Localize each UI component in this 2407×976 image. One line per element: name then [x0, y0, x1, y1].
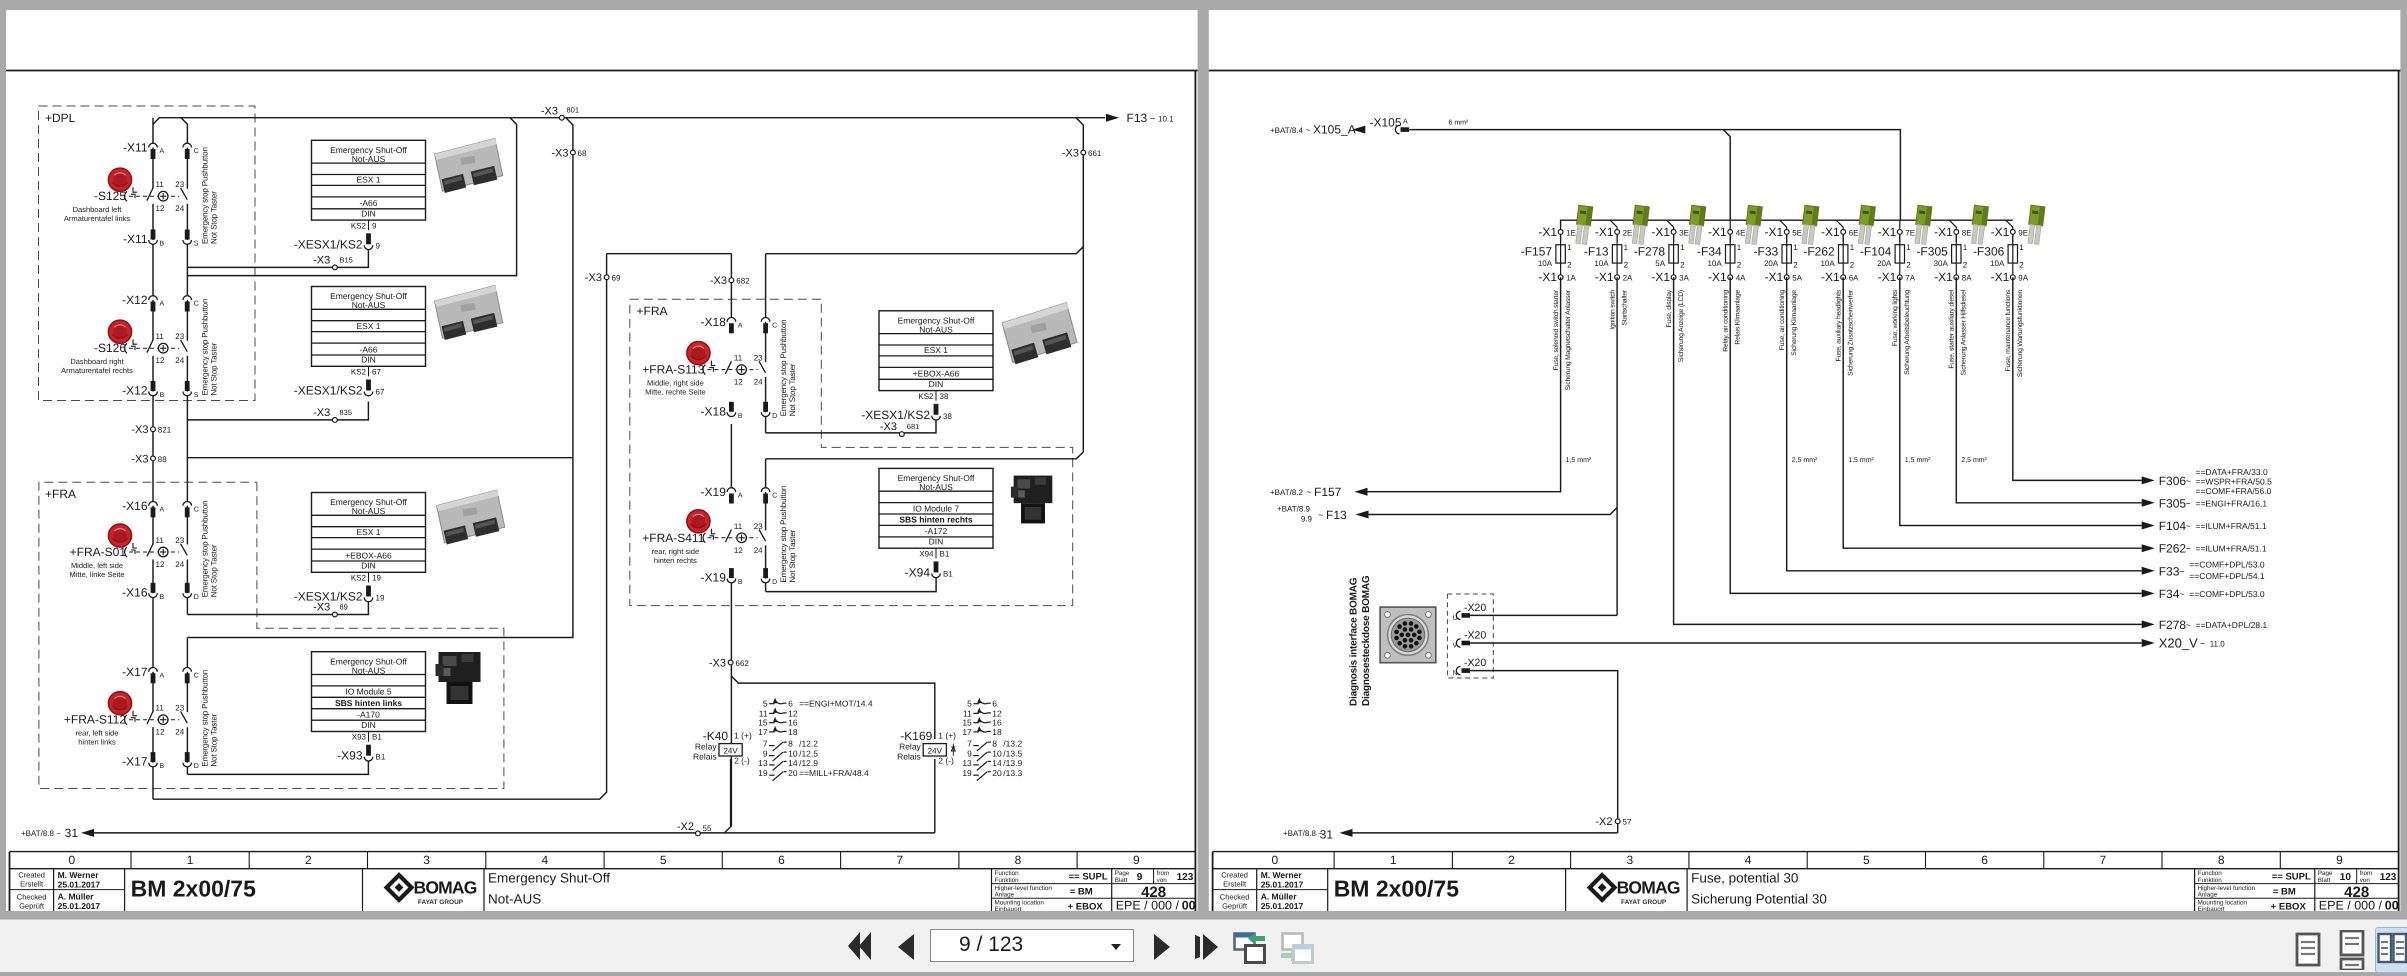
svg-text:7: 7 [2100, 853, 2107, 867]
svg-text:B: B [160, 594, 165, 601]
svg-text:Emergency stop Pushbutton: Emergency stop Pushbutton [201, 299, 210, 396]
connector -X16 pin A [149, 501, 158, 505]
svg-text:==COMF+DPL/54.1: ==COMF+DPL/54.1 [2189, 571, 2265, 581]
svg-text:Funktion: Funktion [2198, 877, 2223, 884]
plunger circle symbol [158, 191, 168, 201]
svg-text:B: B [160, 392, 165, 399]
svg-text:1: 1 [1390, 853, 1397, 867]
svg-text:7: 7 [763, 739, 768, 749]
svg-text:2: 2 [1567, 260, 1572, 269]
fuse element -F104 20A [1899, 234, 1901, 246]
svg-text:1: 1 [1567, 243, 1572, 252]
svg-text:von: von [1157, 877, 1168, 884]
svg-text:-X3: -X3 [313, 255, 330, 267]
wire main bus vertical [152, 118, 154, 800]
svg-text:Geprüft: Geprüft [1222, 902, 1248, 911]
svg-text:6E: 6E [1849, 228, 1859, 237]
location box +DPL [39, 106, 256, 401]
terminal -X1 2E [1616, 227, 1618, 242]
svg-text:Relay: Relay [695, 742, 717, 752]
svg-text:Emergency stop Pushbutton: Emergency stop Pushbutton [201, 147, 210, 244]
actuator dashed link [129, 551, 179, 553]
svg-text:1,5 mm²: 1,5 mm² [1848, 457, 1874, 464]
svg-text:123: 123 [1177, 872, 1194, 883]
wire F262 output [1843, 277, 2142, 548]
svg-text:==DATA+FRA/33.0: ==DATA+FRA/33.0 [2196, 467, 2268, 477]
svg-text:==ENGI+MOT/14.4: ==ENGI+MOT/14.4 [799, 699, 873, 709]
svg-text:-X1: -X1 [1708, 270, 1727, 284]
column-number strip [10, 851, 1196, 853]
arrow F262 [2142, 544, 2155, 552]
svg-text:12: 12 [734, 378, 743, 387]
svg-text:7: 7 [967, 739, 972, 749]
svg-text:-X1: -X1 [1934, 270, 1953, 284]
svg-text:1: 1 [2019, 243, 2024, 252]
arrow F305 [2142, 499, 2155, 507]
contact 23-24 [185, 545, 189, 560]
svg-text:Sicherung Klimaanlage: Sicherung Klimaanlage [1791, 290, 1798, 356]
svg-text:-F157: -F157 [1521, 245, 1553, 259]
svg-text:1: 1 [1963, 243, 1968, 252]
svg-text:-X11: -X11 [123, 232, 148, 246]
svg-text:-X16: -X16 [122, 585, 148, 599]
svg-text:Not Stop Taster: Not Stop Taster [788, 529, 797, 582]
relay -K40 coil [693, 729, 752, 766]
fuse supply bus [1561, 220, 2013, 227]
svg-text:24: 24 [175, 728, 184, 737]
fuse -F34 [1697, 225, 1746, 352]
fuse -F306 [1973, 225, 2029, 377]
svg-text:~: ~ [1306, 125, 1311, 135]
plunger circle symbol [158, 343, 168, 353]
BOMAG logo [1590, 875, 1615, 900]
svg-text:24: 24 [175, 560, 184, 569]
svg-text:B: B [738, 579, 743, 586]
svg-text:835: 835 [340, 408, 353, 417]
wire F34 output [1730, 277, 2142, 593]
svg-text:7: 7 [896, 853, 903, 867]
svg-text:-X1: -X1 [1934, 225, 1953, 239]
svg-text:-X3: -X3 [131, 453, 148, 465]
svg-text:1 (+): 1 (+) [938, 731, 956, 741]
svg-text:==COMF+FRA/56.0: ==COMF+FRA/56.0 [2196, 486, 2272, 496]
svg-text:6: 6 [992, 699, 997, 709]
svg-text:IO Module 5: IO Module 5 [345, 687, 392, 697]
svg-text:BM 2x00/75: BM 2x00/75 [1334, 876, 1460, 902]
pin C [183, 667, 192, 671]
svg-text:== SUPL: == SUPL [2272, 872, 2311, 883]
svg-text:0: 0 [68, 853, 75, 867]
svg-text:DIN: DIN [361, 561, 376, 571]
svg-text:-X12: -X12 [122, 384, 148, 398]
left page sheet [6, 10, 1198, 912]
first page button [847, 931, 872, 961]
svg-text:2: 2 [2019, 260, 2024, 269]
svg-text:10A: 10A [1707, 259, 1722, 268]
svg-text:8: 8 [1015, 853, 1022, 867]
svg-text:A: A [160, 301, 165, 308]
svg-text:6: 6 [1981, 853, 1988, 867]
svg-text:Not Stop Taster: Not Stop Taster [210, 713, 219, 766]
svg-text:M. Werner: M. Werner [1261, 870, 1303, 880]
svg-text:-A66: -A66 [360, 198, 378, 208]
svg-text:Fuse, auxiliary headlights: Fuse, auxiliary headlights [1836, 289, 1843, 361]
fuse element -F34 10A [1729, 234, 1731, 246]
wire X94 link [766, 577, 937, 592]
fuse element -F305 30A [1955, 234, 1957, 246]
svg-text:ESX 1: ESX 1 [924, 345, 948, 355]
svg-text:+FRA: +FRA [45, 487, 76, 501]
svg-text:A: A [738, 322, 743, 329]
svg-text:662: 662 [736, 659, 750, 668]
pin C [761, 317, 770, 321]
fuse -F157 [1521, 225, 1577, 391]
svg-text:A: A [160, 506, 165, 513]
svg-text:20: 20 [788, 768, 798, 778]
svg-text:5: 5 [660, 853, 667, 867]
svg-text:-X93: -X93 [337, 749, 363, 763]
svg-text:Ignition switch: Ignition switch [1610, 290, 1617, 330]
wire K169 coil tail [934, 759, 936, 833]
svg-text:-X1: -X1 [1595, 270, 1614, 284]
svg-text:-F33: -F33 [1754, 245, 1779, 259]
svg-text:von: von [2360, 877, 2371, 884]
svg-text:D: D [772, 413, 777, 420]
svg-text:==WSPR+FRA/50.5: ==WSPR+FRA/50.5 [2196, 476, 2273, 486]
wire X18 C feed from X3-661 riser [766, 247, 1084, 254]
arrow +BAT/8.8 31 [81, 829, 94, 837]
svg-text:57: 57 [1623, 818, 1632, 827]
bus jog [2006, 220, 2013, 227]
svg-text:30A: 30A [1934, 259, 1949, 268]
svg-text:~: ~ [2186, 620, 2191, 630]
svg-text:Not-AUS: Not-AUS [919, 324, 953, 334]
ESX connector image [436, 490, 506, 545]
svg-text:2A: 2A [1623, 274, 1633, 283]
actuator symbol [133, 339, 137, 344]
svg-text:Relay, air conditioning: Relay, air conditioning [1723, 290, 1730, 352]
svg-text:25.01.2017: 25.01.2017 [1261, 901, 1304, 911]
fuse -F33 [1754, 225, 1803, 356]
svg-text:1: 1 [1793, 243, 1798, 252]
wire F305 output [1956, 277, 2141, 503]
location box +FRA middle [630, 299, 1073, 605]
svg-text:Fuse, solenoid switch starter: Fuse, solenoid switch starter [1553, 289, 1560, 370]
svg-text:-X17: -X17 [122, 755, 148, 769]
svg-text:2: 2 [1624, 260, 1629, 269]
relay -K169 coil [897, 729, 956, 766]
pin D [185, 752, 190, 762]
svg-text:-F278: -F278 [1634, 245, 1666, 259]
svg-text:2: 2 [1737, 260, 1742, 269]
previous view button [1231, 927, 1267, 967]
svg-text:Fuse, starter auxiliary diesel: Fuse, starter auxiliary diesel [1949, 289, 1956, 368]
bus jog [1836, 220, 1843, 227]
svg-text:+FRA: +FRA [637, 304, 668, 318]
svg-text:Armaturentafel links: Armaturentafel links [64, 214, 131, 223]
svg-text:682: 682 [736, 277, 750, 286]
svg-text:2: 2 [1508, 853, 1515, 867]
svg-text:F34: F34 [2159, 587, 2180, 601]
svg-text:rear, left side: rear, left side [76, 729, 119, 738]
blade fuse image [1970, 205, 1989, 244]
svg-text:19: 19 [962, 768, 972, 778]
bus jog [1780, 220, 1787, 227]
svg-text:Middle, left side: Middle, left side [71, 561, 123, 570]
svg-text:/13.9: /13.9 [1003, 758, 1022, 768]
svg-text:1,5 mm²: 1,5 mm² [1905, 457, 1931, 464]
svg-text:F278: F278 [2159, 618, 2187, 632]
svg-text:Not-AUS: Not-AUS [352, 154, 386, 164]
svg-text:D: D [194, 594, 199, 601]
svg-text:rear, right side: rear, right side [652, 547, 700, 556]
svg-text:5: 5 [1863, 853, 1870, 867]
wire F33 output [1787, 277, 2142, 571]
plunger circle symbol [158, 547, 168, 557]
svg-text:Relais: Relais [693, 752, 717, 762]
svg-text:C: C [194, 506, 199, 513]
fuse -F104 [1860, 225, 1916, 375]
svg-text:Anlage: Anlage [2198, 892, 2218, 899]
svg-text:-X20: -X20 [1464, 657, 1486, 669]
svg-text:10: 10 [2340, 872, 2352, 883]
svg-text:F33: F33 [2159, 564, 2180, 578]
svg-text:Diagnosis interface BOMAG: Diagnosis interface BOMAG [1349, 577, 1360, 706]
wire DPL C-chain vertical [181, 118, 187, 276]
svg-text:ESX 1: ESX 1 [356, 175, 380, 185]
bus jog [1729, 220, 1731, 227]
svg-text:Dashboard left: Dashboard left [73, 205, 123, 214]
svg-text:Created: Created [1221, 871, 1248, 880]
next page button [1152, 933, 1172, 961]
svg-text:-X1: -X1 [1708, 225, 1727, 239]
svg-text:8: 8 [2218, 853, 2225, 867]
svg-text:+BAT/8.8 ~: +BAT/8.8 ~ [21, 829, 61, 838]
ESX module table A66-4 [861, 311, 993, 422]
previous page button [896, 933, 916, 961]
svg-text:==ILUM+FRA/51.1: ==ILUM+FRA/51.1 [2196, 544, 2267, 554]
connector -X16 pin B [151, 583, 156, 593]
actuator dashed link [129, 195, 179, 197]
wire X16/X17 C-chain [186, 505, 188, 615]
plunger circle symbol [737, 365, 747, 375]
mushroom head [687, 510, 710, 533]
svg-text:23: 23 [754, 354, 763, 363]
svg-text:-X20: -X20 [1464, 630, 1486, 642]
svg-text:55: 55 [703, 824, 712, 833]
svg-text:2E: 2E [1623, 228, 1633, 237]
svg-text:24V: 24V [723, 746, 738, 755]
next view button (disabled) [1279, 927, 1315, 967]
drawing frame outer border [6, 70, 1198, 72]
X20 plug dashed box [1447, 594, 1493, 678]
svg-text:A. Müller: A. Müller [1261, 892, 1298, 902]
svg-text:= BM: = BM [1070, 887, 1093, 898]
svg-text:+DPL: +DPL [45, 111, 76, 125]
svg-text:Blatt: Blatt [1115, 877, 1128, 884]
svg-text:+EBOX-A66: +EBOX-A66 [913, 369, 960, 379]
svg-text:~: ~ [2186, 476, 2191, 486]
svg-text:==ENGI+FRA/16.1: ==ENGI+FRA/16.1 [2196, 498, 2268, 508]
svg-text:25.01.2017: 25.01.2017 [1261, 880, 1304, 890]
svg-text:Emergency stop Pushbutton: Emergency stop Pushbutton [201, 501, 210, 598]
wire X3-661 bottom corner [766, 452, 1084, 459]
svg-text:-X3: -X3 [541, 106, 558, 118]
svg-text:8: 8 [992, 739, 997, 749]
svg-text:Emergency stop Pushbutton: Emergency stop Pushbutton [201, 670, 210, 767]
svg-text:ESX 1: ESX 1 [356, 321, 380, 331]
svg-text:/13.2: /13.2 [1003, 739, 1022, 749]
svg-text:X94: X94 [919, 549, 934, 558]
IO module table 4 [879, 468, 993, 579]
svg-text:KS2: KS2 [351, 574, 367, 583]
actuator dashed link [129, 347, 179, 349]
wire X18 to X19 segment [730, 424, 732, 489]
svg-text:A: A [1403, 119, 1408, 126]
svg-text:24: 24 [175, 356, 184, 365]
svg-text:/12.9: /12.9 [799, 758, 818, 768]
svg-text:-S126: -S126 [94, 341, 126, 355]
pin C [183, 296, 192, 300]
wire F13 arrow jog [1368, 508, 1617, 515]
svg-text:3A: 3A [1679, 274, 1689, 283]
svg-text:Sicherung Anlasser Hilfsdiesel: Sicherung Anlasser Hilfsdiesel [1961, 289, 1968, 375]
svg-text:2: 2 [305, 853, 312, 867]
svg-text:4E: 4E [1736, 228, 1746, 237]
svg-text:Checked: Checked [1220, 893, 1250, 902]
svg-text:-X19: -X19 [701, 571, 727, 585]
svg-text:X20_V: X20_V [2159, 636, 2198, 651]
svg-text:-F262: -F262 [1803, 245, 1835, 259]
svg-text:-X3: -X3 [709, 658, 726, 670]
contact 11-12 [151, 712, 155, 727]
svg-text:38: 38 [940, 392, 949, 401]
plunger circle symbol [737, 533, 747, 543]
svg-text:3: 3 [1626, 853, 1633, 867]
svg-text:Not-AUS: Not-AUS [352, 506, 386, 516]
svg-text:D: D [772, 579, 777, 586]
svg-text:~: ~ [2200, 639, 2205, 649]
svg-text:24V: 24V [928, 746, 943, 755]
svg-text:123: 123 [2380, 872, 2397, 883]
terminal -X1 4E [1729, 227, 1731, 242]
svg-text:23: 23 [175, 704, 184, 713]
svg-text:24: 24 [754, 546, 763, 555]
diagnosis connector image [1380, 607, 1436, 663]
svg-text:~: ~ [2186, 521, 2191, 531]
svg-text:681: 681 [907, 422, 920, 431]
blade fuse image [1631, 205, 1650, 244]
svg-text:1: 1 [1680, 243, 1685, 252]
svg-text:Erstellt: Erstellt [20, 880, 44, 889]
svg-text:10A: 10A [1538, 259, 1553, 268]
svg-text:F157: F157 [1314, 485, 1342, 499]
svg-text:18: 18 [788, 727, 798, 737]
svg-text:-X18: -X18 [701, 315, 727, 329]
actuator symbol [133, 711, 137, 716]
svg-text:-X19: -X19 [701, 485, 727, 499]
svg-text:-A170: -A170 [357, 709, 380, 719]
svg-text:5: 5 [763, 699, 768, 709]
svg-text:B15: B15 [340, 256, 353, 265]
connector -X11 pin A [149, 143, 158, 147]
location box +FRA lower-left [39, 482, 504, 788]
actuator dashed link [707, 537, 757, 539]
svg-text:5E: 5E [1792, 228, 1802, 237]
bus jog [1610, 220, 1617, 227]
svg-text:23: 23 [175, 536, 184, 545]
svg-text:2 (-): 2 (-) [734, 756, 750, 766]
actuator dashed link [129, 719, 179, 721]
svg-text:25.01.2017: 25.01.2017 [58, 901, 101, 911]
wire top bus to F13 [153, 118, 1105, 125]
svg-text:B: B [160, 241, 165, 248]
svg-text:-X1: -X1 [1651, 225, 1670, 239]
blade fuse image [1857, 205, 1876, 244]
blade fuse image [1687, 205, 1706, 244]
ESX connector image [1001, 302, 1079, 365]
contact 23-24 [764, 530, 768, 545]
actuator symbol [133, 187, 137, 192]
svg-text:4: 4 [542, 853, 549, 867]
ESX connector image [434, 138, 504, 193]
svg-text:Checked: Checked [17, 893, 47, 902]
svg-text:Dashboard right: Dashboard right [70, 357, 124, 366]
svg-text:Not Stop Taster: Not Stop Taster [210, 191, 219, 244]
IO module table 3 [312, 652, 426, 763]
single page view icon [2291, 931, 2325, 969]
svg-text:3: 3 [423, 853, 430, 867]
column-number strip [1213, 851, 2399, 853]
svg-text:Startschalter: Startschalter [1621, 289, 1628, 325]
svg-text:= BM: = BM [2273, 887, 2296, 898]
wire B15 link [187, 249, 368, 267]
blade fuse image [2026, 205, 2045, 244]
actuator symbol [133, 543, 137, 548]
wire F104 output [1900, 277, 2142, 525]
plunger circle symbol [158, 715, 168, 725]
svg-text:5A: 5A [1655, 259, 1665, 268]
svg-text:Not Stop Taster: Not Stop Taster [210, 342, 219, 395]
svg-text:-X2: -X2 [677, 821, 694, 833]
svg-text:-X1: -X1 [1821, 225, 1840, 239]
wire F13 chain down [1616, 277, 1618, 615]
pin S [185, 230, 190, 240]
svg-text:==ILUM+FRA/51.1: ==ILUM+FRA/51.1 [2196, 521, 2267, 531]
svg-text:Emergency stop Pushbutton: Emergency stop Pushbutton [779, 486, 788, 583]
svg-text:1 (+): 1 (+) [734, 731, 752, 741]
svg-text:DIN: DIN [929, 537, 944, 547]
mushroom head [108, 168, 131, 191]
svg-text:9: 9 [1133, 853, 1140, 867]
continuous view icon [2335, 930, 2369, 970]
svg-text:F13: F13 [1127, 111, 1148, 125]
wire branch to F34 column [1723, 130, 1730, 221]
emergency stop pushbutton -S126 [61, 293, 218, 399]
svg-text:DIN: DIN [929, 379, 944, 389]
svg-text:C: C [772, 322, 777, 329]
svg-text:-X1: -X1 [1821, 270, 1840, 284]
wire F278 output [1674, 277, 2142, 624]
svg-text:89: 89 [340, 603, 348, 612]
svg-text:M. Werner: M. Werner [58, 870, 100, 880]
svg-text:==DATA+DPL/28.1: ==DATA+DPL/28.1 [2196, 620, 2268, 630]
svg-text:Sicherung Zusatzscheinwerfer: Sicherung Zusatzscheinwerfer [1848, 289, 1855, 376]
ESX module table A66-1 [294, 140, 426, 251]
svg-text:20: 20 [992, 768, 1002, 778]
svg-text:ESX 1: ESX 1 [356, 527, 380, 537]
svg-text:9.9: 9.9 [1301, 515, 1313, 524]
